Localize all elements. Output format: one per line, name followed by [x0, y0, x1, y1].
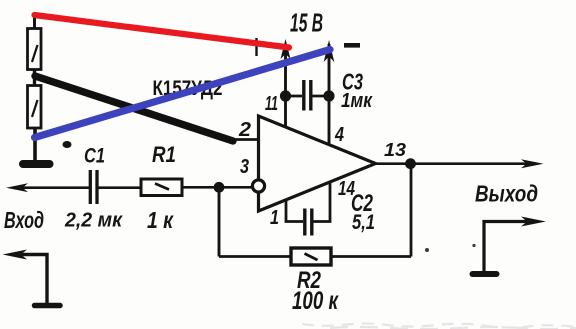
ground (input) — [35, 303, 61, 309]
wire feedback up to output — [410, 164, 413, 257]
wire C3 left — [286, 95, 303, 98]
output ground bracket arrow — [484, 217, 546, 273]
svg-text:3: 3 — [240, 155, 249, 178]
junction output node — [405, 158, 416, 169]
wire +supply rail (pin 11) — [284, 44, 287, 128]
capacitor C1 — [90, 170, 97, 204]
resistor R1 — [141, 179, 182, 196]
scan smudge bottom edge — [302, 324, 576, 329]
svg-text:R1: R1 — [152, 142, 176, 167]
input arrow (Вход) — [6, 183, 89, 192]
svg-text:С1: С1 — [84, 145, 105, 168]
annotation blue line (divider bottom to − rail) — [35, 50, 331, 138]
input ground bracket arrow — [3, 250, 48, 304]
svg-text:11: 11 — [265, 92, 278, 115]
junction on − rail — [323, 90, 334, 101]
junction on + rail — [280, 90, 291, 101]
arrowhead +supply — [281, 39, 291, 59]
wire feedback right — [331, 255, 411, 258]
annotation black line (divider mid to pin 2) — [35, 76, 233, 141]
svg-text:2: 2 — [238, 118, 252, 141]
resistor R' (upper divider) — [28, 29, 42, 70]
svg-text:13: 13 — [384, 139, 407, 160]
ground (output) — [473, 271, 497, 277]
svg-text:1: 1 — [270, 206, 279, 229]
arrowhead −supply — [324, 40, 335, 62]
output arrowhead — [521, 159, 544, 168]
plus sign (+ supply, mostly under red line) — [255, 38, 257, 56]
svg-text:Вход: Вход — [4, 207, 44, 233]
capacitor C2 — [305, 209, 312, 236]
wire top stub above R divider — [33, 14, 36, 29]
minus sign (− supply) — [344, 43, 360, 48]
svg-text:15 В: 15 В — [290, 8, 323, 38]
ground (divider) — [23, 160, 50, 168]
pin 14 wire — [313, 181, 330, 222]
noise dot near C1 — [63, 141, 72, 148]
pin 1 wire — [286, 199, 303, 222]
svg-text:100 к: 100 к — [292, 287, 339, 315]
resistor R'' (lower divider) — [28, 86, 42, 129]
noise dot right of R2 — [425, 248, 429, 252]
wire C3 right — [313, 95, 330, 98]
svg-text:4: 4 — [334, 123, 344, 146]
svg-text:1 к: 1 к — [147, 207, 174, 233]
wire feedback left — [219, 255, 291, 258]
op-amp U1 triangle — [259, 116, 376, 211]
capacitor C3 — [304, 80, 311, 111]
svg-text:2,2 мк: 2,2 мк — [64, 209, 123, 232]
svg-text:1мк: 1мк — [341, 89, 373, 112]
wire divider bottom to ground — [33, 127, 37, 161]
wire R1 to pin 3 — [182, 186, 253, 189]
wire C1 to R1 — [99, 186, 142, 189]
output wire — [376, 162, 529, 165]
wire −supply rail (pin 4) — [328, 44, 331, 145]
annotation red line (divider top to + rail) — [35, 15, 290, 48]
resistor R2 — [291, 248, 331, 265]
junction input node — [214, 182, 225, 193]
wire between divider resistors — [33, 69, 36, 86]
svg-text:Выход: Выход — [475, 181, 538, 207]
inverting input bubble — [252, 180, 264, 192]
svg-text:5,1: 5,1 — [352, 211, 375, 234]
noise dot above output ground — [472, 244, 475, 247]
wire junction down to feedback — [218, 187, 221, 256]
pin 2 wire — [226, 138, 258, 141]
